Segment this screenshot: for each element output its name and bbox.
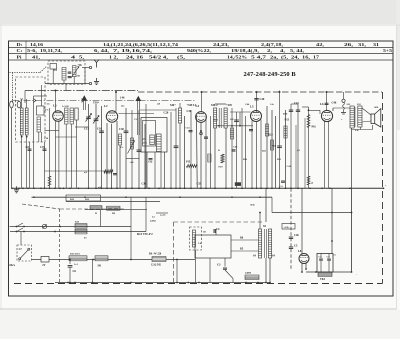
svg-text:P16: P16: [312, 125, 317, 128]
svg-text:S.B: S.B: [355, 130, 359, 132]
svg-text:C40: C40: [260, 98, 265, 101]
svg-text:2T: 2T: [42, 264, 45, 267]
svg-text:P15: P15: [186, 161, 191, 164]
svg-text:14,16: 14,16: [30, 42, 43, 47]
svg-text:2a,: 2a,: [270, 55, 278, 60]
svg-text:R16: R16: [283, 113, 288, 116]
svg-text:C44: C44: [245, 103, 250, 106]
svg-text:C4: C4: [216, 228, 220, 231]
svg-text:C6: C6: [73, 270, 77, 273]
svg-text:C43: C43: [233, 146, 238, 149]
svg-text:5 4,7: 5 4,7: [251, 55, 266, 60]
svg-text:-15%: -15%: [142, 143, 148, 145]
svg-text:41,: 41,: [32, 55, 40, 60]
svg-text:14,(1,21,24,(6,26,5(11,12,1,74: 14,(1,21,24,(6,26,5(11,12,1,74: [103, 42, 178, 47]
svg-text:+5B: +5B: [76, 75, 81, 78]
svg-text:C34: C34: [148, 161, 153, 164]
svg-text:C35: C35: [40, 146, 45, 149]
svg-text:5,: 5,: [79, 55, 84, 60]
svg-text:KD: KD: [375, 106, 379, 109]
svg-text:+549: +549: [226, 104, 232, 107]
svg-text:R15/121%: R15/121%: [70, 254, 81, 256]
svg-text:5, 44,: 5, 44,: [290, 48, 304, 53]
svg-text:L3: L3: [53, 104, 57, 108]
svg-text:C41: C41: [287, 165, 292, 168]
svg-text:31,: 31,: [358, 42, 366, 47]
svg-text:540-2: 540-2: [211, 104, 218, 107]
svg-text:a(2: a(2: [84, 171, 87, 174]
svg-text:Pi: Pi: [95, 213, 97, 215]
svg-text:1 2,: 1 2,: [109, 55, 118, 60]
svg-text:31: 31: [373, 42, 379, 47]
svg-text:14,/52%: 14,/52%: [227, 55, 247, 60]
svg-text:19,11,74,: 19,11,74,: [40, 48, 62, 53]
svg-text:C46: C46: [332, 102, 337, 105]
svg-text:C4b: C4b: [294, 234, 299, 237]
svg-text:C3: C3: [217, 264, 221, 267]
svg-text:(5,: (5,: [281, 55, 288, 60]
svg-text:4%: 4%: [120, 147, 123, 149]
svg-text:a(2: a(2: [98, 186, 101, 189]
svg-text:R12: R12: [85, 198, 90, 201]
svg-text:60c/s: 60c/s: [10, 264, 15, 267]
svg-text:54/2 4,: 54/2 4,: [149, 55, 168, 60]
svg-text:+4b: +4b: [78, 64, 83, 67]
svg-text:R4 / W 220: R4 / W 220: [149, 253, 162, 256]
svg-text:( 46: ( 46: [120, 97, 125, 100]
svg-text:940(%22,: 940(%22,: [187, 48, 211, 53]
svg-text:C36: C36: [142, 182, 147, 185]
svg-text:5+5: 5+5: [383, 49, 392, 53]
svg-text:R12: R12: [214, 119, 219, 122]
svg-text:5-6,: 5-6,: [27, 48, 37, 53]
svg-text:5B: 5B: [203, 232, 206, 234]
svg-text:+549 L3: +549 L3: [187, 104, 197, 107]
svg-text:26,: 26,: [344, 42, 353, 47]
svg-text:247-248-249-250 B: 247-248-249-250 B: [244, 71, 297, 78]
svg-text:2,: 2,: [267, 48, 272, 53]
svg-text:4%: 4%: [45, 109, 49, 112]
svg-text:L6: L6: [320, 102, 324, 106]
svg-text:42,: 42,: [316, 42, 324, 47]
svg-text:C10: C10: [97, 128, 102, 131]
svg-text:540+: 540+: [170, 104, 176, 107]
svg-text:(11: (11: [297, 149, 300, 152]
svg-text:24,23,: 24,23,: [213, 42, 229, 47]
svg-text:17: 17: [313, 55, 319, 60]
svg-text:D:: D:: [17, 42, 23, 47]
svg-text:C20: C20: [164, 111, 169, 114]
svg-text:L5: L5: [250, 105, 254, 109]
svg-text:16,: 16,: [302, 55, 310, 60]
svg-text:C15: C15: [186, 126, 191, 129]
svg-text:o+o(5: o+o(5: [160, 214, 166, 217]
svg-text:TK3: TK3: [320, 278, 326, 281]
svg-text:(5,: (5,: [177, 55, 185, 60]
svg-text:+1/2(+: +1/2(+: [284, 226, 291, 229]
svg-text:C41: C41: [294, 102, 299, 105]
svg-text:24,: 24,: [291, 55, 299, 60]
svg-text:6, 44,: 6, 44,: [94, 48, 109, 53]
svg-text:24, 16: 24, 16: [126, 55, 143, 60]
svg-text:C13: C13: [84, 128, 89, 131]
svg-text:5+5/49: 5+5/49: [62, 106, 69, 108]
svg-text:220Ω: 220Ω: [150, 220, 156, 223]
svg-text:2,4(7,18,: 2,4(7,18,: [261, 42, 283, 47]
svg-text:C:: C:: [17, 48, 23, 53]
svg-text:24000: 24000: [245, 272, 252, 275]
svg-text:12 Ω 542: 12 Ω 542: [151, 264, 162, 267]
svg-text:L2: L2: [104, 104, 108, 108]
svg-text:19/18,4(,9,: 19/18,4(,9,: [231, 48, 259, 53]
svg-text:4,: 4,: [280, 48, 285, 53]
svg-text:7, 19,16,74,: 7, 19,16,74,: [113, 48, 152, 53]
svg-text:4: 4: [71, 55, 75, 60]
svg-text:R13 TW-P 2: R13 TW-P 2: [137, 232, 153, 236]
svg-text:C4+: C4+: [270, 104, 275, 106]
